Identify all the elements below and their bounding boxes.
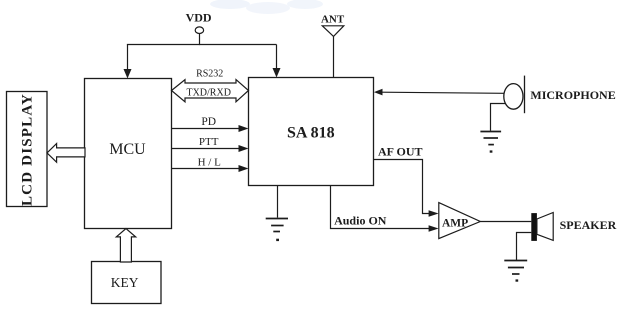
watermark [210,0,323,14]
wire VDD rail [124,45,281,79]
wire AF OUT [374,144,439,216]
svg-text:VDD: VDD [186,11,212,25]
wire H/L [172,156,249,172]
box MCU [85,79,172,229]
svg-text:H / L: H / L [198,156,222,168]
svg-text:KEY: KEY [111,275,139,290]
box LCD DISPLAY [7,92,48,207]
wire AMP to speaker [480,221,531,223]
wire mic to ground [491,104,506,131]
op-amp AMP [439,203,481,239]
svg-text:MCU: MCU [109,141,146,158]
box SA818 [249,78,374,186]
ground (SA818) [266,219,288,242]
microphone symbol [504,76,616,114]
wire MCU to LCD hollow arrow [47,144,85,163]
wire speaker to ground [517,233,532,261]
svg-text:LCD DISPLAY: LCD DISPLAY [20,93,36,206]
svg-text:PD: PD [201,116,216,128]
antenna ANT [321,13,345,78]
VDD node [186,11,212,46]
svg-text:AMP: AMP [442,218,468,230]
svg-text:ANT: ANT [321,13,345,25]
wire mic to SA818 [374,89,504,96]
speaker symbol [531,213,616,241]
svg-text:AF OUT: AF OUT [378,144,423,158]
svg-text:RS232: RS232 [196,69,223,80]
svg-text:SA 818: SA 818 [287,125,335,142]
wire TXD/RXD double arrow [172,69,249,102]
wire Audio ON [331,186,439,232]
wire SA818 to ground [277,186,279,218]
svg-text:PTT: PTT [199,136,219,148]
svg-text:SPEAKER: SPEAKER [560,218,617,232]
wire PD [172,116,249,132]
ground (speaker) [504,261,527,282]
svg-text:Audio ON: Audio ON [334,214,387,228]
box KEY [92,262,162,304]
ground (microphone) [480,132,501,153]
wire KEY to MCU hollow arrow [116,229,135,262]
svg-text:MICROPHONE: MICROPHONE [530,88,615,102]
wire PTT [172,136,249,152]
svg-text:TXD/RXD: TXD/RXD [186,88,230,99]
